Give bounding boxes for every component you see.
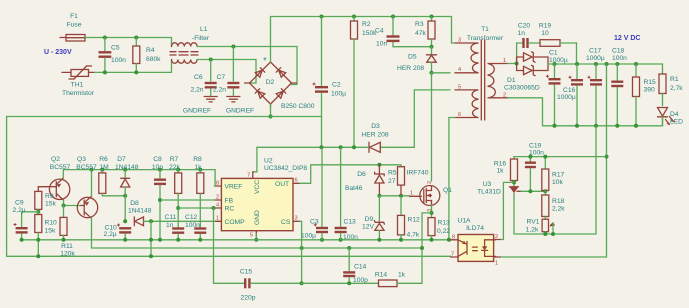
wire Q2 collector to Q3 base (64, 205, 81, 207)
node sense/clamp (420, 246, 424, 250)
svg-text:5: 5 (458, 85, 461, 91)
wire to opto pin2 (500, 182, 514, 239)
svg-text:10k: 10k (552, 179, 563, 186)
svg-text:47k: 47k (415, 30, 426, 37)
resistor R6 (99, 156, 109, 196)
svg-text:D4: D4 (670, 111, 679, 118)
resistor R1 (659, 74, 683, 106)
svg-text:C1: C1 (549, 50, 558, 57)
svg-text:R1: R1 (670, 76, 679, 83)
wire GNDREF bus (7, 116, 322, 118)
node fuse/C5 (103, 36, 107, 40)
svg-text:RV1: RV1 (527, 219, 540, 226)
node C9 gnd (20, 238, 24, 242)
svg-text:2,2µ: 2,2µ (13, 207, 26, 214)
svg-text:1N4148: 1N4148 (128, 208, 152, 215)
wire D8 to COMP pin (151, 220, 215, 222)
node C11 gnd (176, 238, 180, 242)
wire C17 gnd column down (553, 126, 596, 234)
svg-text:1M: 1M (99, 164, 109, 171)
svg-text:C9: C9 (15, 200, 24, 207)
svg-text:R2: R2 (362, 21, 371, 28)
resistor R12 (398, 196, 421, 240)
svg-text:D8: D8 (130, 200, 139, 207)
svg-text:2,7k: 2,7k (670, 85, 683, 92)
svg-text:UC3842_DIP8: UC3842_DIP8 (264, 165, 307, 172)
svg-text:1N4148: 1N4148 (115, 164, 139, 171)
svg-text:BC557: BC557 (50, 164, 71, 171)
node C16 bottom (575, 124, 579, 128)
bridge rectifier D2 (245, 56, 315, 110)
resistor R3 (415, 17, 435, 47)
svg-text:2,2n: 2,2n (213, 87, 226, 94)
svg-text:R9: R9 (45, 193, 54, 200)
svg-text:100µ: 100µ (301, 233, 316, 240)
svg-text:C3: C3 (310, 219, 319, 226)
svg-text:C12: C12 (185, 214, 198, 221)
svg-text:R18: R18 (552, 198, 565, 205)
wire OUT to gate network (300, 165, 401, 184)
node C19 top (528, 155, 532, 159)
svg-text:12V: 12V (362, 224, 374, 231)
svg-text:C8: C8 (153, 156, 162, 163)
svg-text:15k: 15k (45, 228, 56, 235)
svg-text:1k: 1k (194, 164, 202, 171)
wire D8 column down (150, 221, 152, 256)
svg-text:ILD74: ILD74 (466, 225, 484, 232)
wire gate line (379, 195, 409, 197)
node R3 top (430, 15, 434, 19)
node C4 top (391, 15, 395, 19)
svg-text:D6: D6 (357, 171, 366, 178)
node R17 top (543, 155, 547, 159)
node D8 column (149, 219, 153, 223)
wire to C9 (22, 212, 39, 227)
optocoupler U1A ILD74 (451, 218, 501, 267)
capacitor C19 (525, 143, 544, 192)
svg-text:1000µ: 1000µ (549, 57, 568, 64)
svg-text:Q3: Q3 (77, 156, 86, 163)
svg-text:4: 4 (216, 203, 219, 209)
svg-text:10n: 10n (152, 164, 163, 171)
wire Q3 collector clamp line (92, 247, 423, 249)
node D6/D9/gate (377, 194, 381, 198)
capacitor C13 (335, 147, 359, 241)
svg-text:15k: 15k (45, 201, 56, 208)
svg-text:3: 3 (458, 38, 461, 44)
node R7/RC (176, 206, 180, 210)
wire Vcc line (257, 146, 354, 148)
capacitor C6 (191, 60, 217, 96)
svg-text:1000µ: 1000µ (557, 94, 576, 101)
svg-text:B250 C800: B250 C800 (281, 103, 315, 110)
capacitor C2 (313, 17, 347, 117)
node C8 gnd (158, 238, 162, 242)
svg-text:1: 1 (495, 261, 498, 267)
node R13 gnd (430, 238, 434, 242)
svg-text:IRF740: IRF740 (407, 170, 429, 177)
svg-text:C6: C6 (194, 74, 203, 81)
svg-text:C11: C11 (165, 214, 177, 221)
svg-text:R4: R4 (146, 47, 155, 54)
svg-text:2: 2 (503, 93, 506, 99)
wire Vcc corner down to U2 VCC pin (253, 147, 257, 172)
diode D6 Bat46 (345, 165, 384, 196)
transformer T1 (455, 26, 508, 120)
node D6 top (377, 163, 381, 167)
zener D9 (362, 196, 384, 240)
svg-text:1k: 1k (398, 272, 406, 279)
svg-text:D7: D7 (117, 156, 126, 163)
resistor R18 (542, 195, 565, 219)
resistor R2 (351, 17, 378, 148)
svg-text:2,2n: 2,2n (191, 87, 204, 94)
node C6 tap (209, 58, 213, 62)
svg-text:D5: D5 (408, 54, 417, 61)
node C7 tap (231, 45, 235, 49)
svg-text:1n: 1n (518, 30, 526, 37)
node R15 bottom (634, 124, 638, 128)
svg-text:390: 390 (644, 87, 655, 94)
svg-text:Fuse: Fuse (67, 22, 82, 29)
svg-text:TH1: TH1 (71, 82, 84, 89)
node R11 gnd (62, 238, 66, 242)
svg-text:100n: 100n (185, 222, 200, 229)
transistor Q1 IRF740 (407, 170, 453, 213)
node C10 gnd (123, 238, 127, 242)
node C18 bottom (615, 124, 619, 128)
node R4 bottom (134, 70, 138, 74)
svg-text:U - 230V: U - 230V (44, 49, 72, 56)
svg-text:R5: R5 (388, 170, 397, 177)
svg-text:12 V DC: 12 V DC (614, 35, 640, 42)
svg-text:C3030065D: C3030065D (504, 85, 540, 92)
node vcc/gnd column crossing (320, 145, 324, 149)
capacitor C3 (301, 147, 328, 240)
wire FB line (160, 199, 215, 201)
svg-text:100n: 100n (111, 57, 126, 64)
svg-text:R11: R11 (61, 243, 73, 250)
resistor R17 (542, 157, 565, 195)
svg-text:8: 8 (216, 181, 219, 187)
node C13 gnd (339, 238, 343, 242)
wire sense branch (422, 213, 432, 283)
svg-text:C13: C13 (344, 219, 357, 226)
node C3 gnd (320, 238, 324, 242)
node D7/R6 (123, 194, 127, 198)
svg-text:U2: U2 (264, 158, 273, 165)
svg-text:3: 3 (295, 216, 298, 222)
node fuse/R4 (134, 36, 138, 40)
capacitor C11 (165, 214, 185, 240)
svg-text:T1: T1 (481, 26, 489, 33)
svg-text:22k: 22k (169, 164, 180, 171)
svg-text:100n: 100n (612, 55, 627, 62)
node R10col/opto line (36, 254, 40, 258)
svg-text:OUT: OUT (275, 181, 289, 188)
resistor R10 (35, 212, 57, 256)
capacitor C12 (185, 214, 206, 240)
svg-text:0,22: 0,22 (437, 228, 450, 235)
wire CS pin column (300, 221, 302, 283)
op-amp U2 UC3842 (215, 158, 308, 239)
svg-text:100µ: 100µ (331, 91, 346, 98)
wire D5 to transformer pin4 (432, 72, 451, 74)
svg-text:6: 6 (458, 112, 461, 118)
diode D7 1N4148 (115, 156, 139, 221)
svg-text:HER 208: HER 208 (397, 65, 424, 72)
node C12 gnd (198, 238, 202, 242)
node R17/R18 (543, 189, 547, 193)
node D8col gnd (149, 238, 153, 242)
svg-text:-Filter: -Filter (192, 35, 210, 42)
capacitor C18 (611, 48, 627, 126)
svg-text:+: + (263, 56, 267, 63)
svg-text:COMP: COMP (225, 219, 246, 226)
wire TL431 ref line (521, 190, 545, 192)
node RV1 wiper (551, 232, 555, 236)
node D5 anode / drain column (430, 71, 434, 75)
svg-text:1: 1 (216, 216, 219, 222)
resistor R4 (133, 38, 161, 73)
svg-text:C16: C16 (563, 87, 576, 94)
wire L1 bottom out to bridge left corner (197, 60, 256, 84)
node C8 top (158, 168, 162, 172)
svg-text:FB: FB (225, 198, 234, 205)
node R10 gnd (36, 238, 40, 242)
node sense line top (605, 62, 609, 66)
capacitor C15 (240, 269, 302, 302)
inductor L1 (common-mode filter) (170, 26, 210, 63)
svg-text:TL431D: TL431D (477, 189, 501, 196)
resistor R7 (169, 156, 182, 228)
node CS col clamp (300, 246, 304, 250)
svg-text:2,2k: 2,2k (552, 206, 565, 213)
svg-text:GNDREF: GNDREF (183, 108, 211, 115)
resistor R11 (60, 206, 75, 258)
potentiometer RV1 (526, 219, 555, 235)
svg-text:U1A: U1A (457, 218, 471, 225)
svg-text:F1: F1 (70, 13, 78, 20)
svg-text:C7: C7 (217, 74, 226, 81)
wire bridge minus down (270, 104, 272, 117)
node R11 top (62, 204, 66, 208)
svg-text:C15: C15 (240, 269, 253, 276)
capacitor C10 (104, 224, 132, 240)
diode D3 HER208 (354, 123, 389, 152)
node C5 bottom (103, 70, 107, 74)
node D7 top (123, 168, 127, 172)
node sense/R17 line (605, 155, 609, 159)
resistor R9 (35, 191, 57, 211)
svg-text:1: 1 (503, 58, 506, 64)
node C17 top (594, 62, 598, 66)
svg-text:2: 2 (495, 234, 498, 240)
wire Q1 source to R13 (431, 205, 433, 217)
svg-text:VREF: VREF (225, 184, 243, 191)
dual diode D1 (504, 52, 555, 92)
node RC/C15 column (212, 206, 216, 210)
wire opto emitter line (7, 255, 451, 257)
wire C15 line to R14 (302, 282, 379, 284)
resistor R19 (539, 23, 577, 65)
svg-text:1: 1 (410, 191, 413, 197)
svg-text:VCC: VCC (254, 180, 261, 194)
capacitor C7 (213, 47, 239, 96)
svg-text:R17: R17 (552, 172, 565, 179)
wire C20 branch up (517, 43, 523, 64)
LED D4 (658, 108, 684, 126)
capacitor C20 (518, 23, 541, 49)
svg-text:R16: R16 (494, 161, 507, 168)
wire fuse to L1 top (85, 38, 172, 47)
svg-text:7: 7 (247, 173, 250, 179)
resistor R13 (428, 218, 450, 240)
wire secondary bottom bus (543, 117, 663, 125)
node C1 top (553, 62, 557, 66)
svg-text:1n: 1n (166, 222, 174, 229)
node pin6 gnd (447, 238, 451, 242)
svg-text:GNDREF: GNDREF (226, 108, 254, 115)
wire pin1 to D1 node (508, 63, 517, 65)
svg-text:680k: 680k (146, 56, 161, 63)
wire gndref corner down at C2 (321, 117, 323, 148)
capacitor C4 (375, 17, 400, 48)
node R19/C16 (575, 62, 579, 66)
resistor R14 (375, 272, 422, 287)
wire thermistor left stub (62, 71, 71, 73)
svg-text:L1: L1 (200, 26, 208, 33)
svg-text:C14: C14 (354, 264, 367, 271)
svg-text:D1: D1 (507, 77, 516, 84)
node R7 top (176, 168, 180, 172)
transistor Q3 BC557 (76, 156, 97, 248)
wire HV top bus (271, 16, 452, 18)
wire bridge plus up to HV bus (270, 17, 272, 63)
svg-text:10: 10 (541, 30, 549, 37)
capacitor C17 (586, 48, 605, 126)
svg-text:C4: C4 (375, 28, 384, 35)
wire transformer pin5 to D3 (380, 90, 450, 147)
svg-text:C5: C5 (111, 45, 120, 52)
wire RC line (178, 207, 214, 209)
svg-text:LED: LED (670, 119, 683, 126)
svg-text:C20: C20 (518, 23, 531, 30)
svg-text:220p: 220p (241, 295, 256, 302)
node R15 top (634, 62, 638, 66)
svg-text:GND: GND (254, 210, 261, 225)
node CS/C15 line (300, 281, 304, 285)
svg-text:R19: R19 (539, 23, 552, 30)
wire L1 top out to bridge right corner (197, 47, 297, 85)
capacitor C8 (152, 156, 166, 240)
node C8/FB (158, 198, 162, 202)
wire pin6 down to gnd rail (449, 118, 455, 240)
svg-text:R7: R7 (170, 156, 179, 163)
ground GNDREF under C6 (183, 97, 217, 115)
svg-text:100n: 100n (343, 234, 358, 241)
wire primary GND rail (22, 239, 451, 241)
ground GNDREF under C7 (226, 97, 254, 115)
svg-text:5: 5 (250, 233, 253, 239)
transistor Q2 BC557 (38, 156, 70, 206)
wire HV bus corner to pin3 (452, 17, 456, 44)
node vcc/C13 (339, 145, 343, 149)
node R8 top (198, 168, 202, 172)
svg-text:Q2: Q2 (51, 156, 60, 163)
node C14 bottom (347, 281, 351, 285)
svg-text:6: 6 (295, 178, 298, 184)
node R16 bottom / opto branch (512, 180, 516, 184)
svg-text:HER 208: HER 208 (361, 132, 388, 139)
node RV1 bottom (543, 232, 547, 236)
svg-text:CS: CS (281, 219, 291, 226)
node Q3 emitter rail (90, 168, 94, 172)
svg-text:7: 7 (451, 252, 454, 258)
wire RC to C15 column (214, 208, 245, 283)
svg-text:C17: C17 (589, 48, 602, 55)
svg-text:2: 2 (427, 181, 433, 184)
resistor R16 (494, 157, 518, 187)
node C1 bottom (553, 124, 557, 128)
svg-text:R15: R15 (644, 79, 657, 86)
node D8col/opto line (149, 254, 153, 258)
wire drain column (431, 73, 433, 181)
svg-text:RC: RC (225, 206, 235, 213)
node bridge minus / gndref bus (269, 115, 273, 119)
resistor R8 (193, 156, 204, 228)
svg-text:27: 27 (388, 178, 396, 185)
node C2 top (320, 15, 324, 19)
svg-text:C19: C19 (529, 143, 542, 150)
node R12 gnd (399, 238, 403, 242)
capacitor C1 (546, 50, 568, 126)
svg-text:1k: 1k (496, 168, 504, 175)
svg-text:10n: 10n (376, 41, 387, 48)
diode D5 HER208 (397, 47, 437, 73)
svg-text:R10: R10 (45, 220, 58, 227)
svg-text:R12: R12 (408, 217, 421, 224)
node C18 top (615, 62, 619, 66)
svg-text:4,7k: 4,7k (407, 232, 420, 239)
wire 12V sense column (500, 64, 607, 257)
svg-text:1000µ: 1000µ (586, 55, 605, 62)
svg-text:100p: 100p (353, 277, 368, 284)
svg-text:R8: R8 (193, 156, 202, 163)
svg-text:R13: R13 (438, 220, 451, 227)
capacitor C9 (13, 200, 28, 240)
svg-text:C2: C2 (332, 82, 341, 89)
svg-text:R6: R6 (99, 156, 108, 163)
resistor R5 (388, 167, 405, 196)
svg-text:Q1: Q1 (443, 187, 452, 194)
node R5 bottom (399, 194, 403, 198)
svg-text:8: 8 (452, 235, 455, 241)
wire gndref left drop (6, 117, 8, 257)
capacitor C5 (99, 38, 127, 73)
svg-text:C18: C18 (612, 48, 625, 55)
wire pin2 to bottom bus (508, 98, 543, 126)
svg-text:Bat46: Bat46 (345, 185, 363, 192)
wire sense feed line (514, 156, 607, 158)
shunt regulator U3 TL431 (477, 181, 553, 234)
node source/sense (430, 211, 434, 215)
capacitor C16 (557, 64, 583, 126)
node U2 gnd (254, 238, 258, 242)
svg-text:D9: D9 (365, 216, 374, 223)
svg-text:Transformer: Transformer (467, 35, 504, 42)
svg-text:R14: R14 (375, 272, 388, 279)
